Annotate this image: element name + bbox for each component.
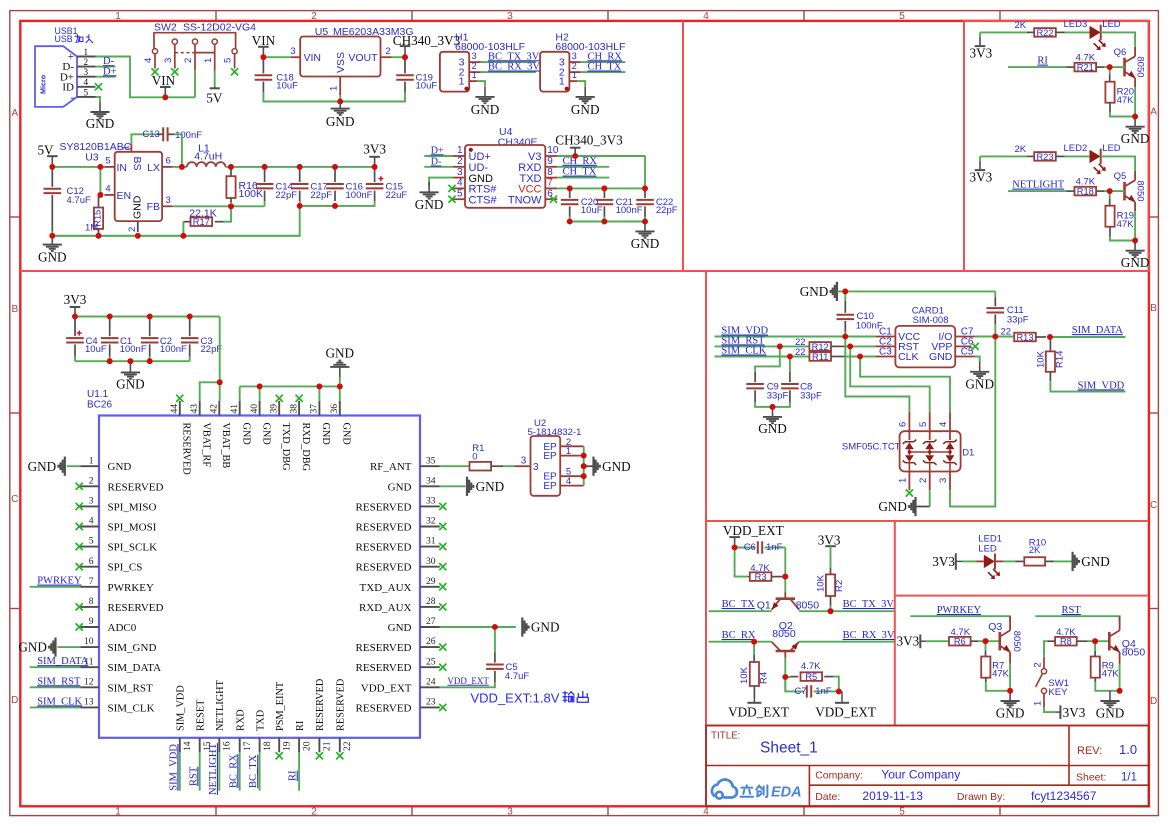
svg-text:VSS: VSS: [335, 52, 347, 73]
svg-text:C5: C5: [961, 346, 974, 357]
svg-text:C13: C13: [142, 129, 159, 140]
U1 pin 25 RESERVED: [420, 666, 440, 668]
capacitor C6: [735, 547, 756, 549]
resistor R8: [1055, 637, 1077, 646]
svg-text:1: 1: [472, 70, 477, 80]
wire SW2 pin1 to 5V: [214, 71, 216, 87]
capacitor C15 polarized: [374, 168, 376, 182]
svg-text:EDA: EDA: [771, 785, 802, 801]
svg-text:Company:: Company:: [815, 769, 863, 781]
svg-text:5V: 5V: [37, 143, 54, 158]
no-connect D1 pin1: [906, 489, 913, 496]
switch SW2 frame: [154, 33, 236, 49]
title block outline: [706, 726, 1149, 807]
svg-text:NETLIGHT: NETLIGHT: [215, 679, 226, 731]
wire FB row: [172, 205, 264, 207]
U1 pin 1 GND: [80, 465, 99, 467]
svg-text:BC_TX: BC_TX: [722, 599, 756, 610]
svg-text:CLK: CLK: [898, 351, 918, 363]
H2 pin 1: [569, 80, 577, 82]
svg-text:4: 4: [89, 516, 94, 527]
svg-text:8050: 8050: [1135, 56, 1146, 77]
svg-text:BC_RX_3V: BC_RX_3V: [843, 630, 895, 641]
svg-text:1: 1: [115, 11, 121, 22]
svg-text:D-: D-: [431, 157, 442, 168]
CARD1 pin C5 GND: [955, 356, 974, 358]
wire SW1 pin1 to 3V3: [1044, 707, 1056, 712]
junction C14 top: [262, 164, 268, 170]
svg-text:LED: LED: [1102, 19, 1121, 30]
svg-text:U3: U3: [85, 152, 99, 164]
svg-text:33: 33: [426, 496, 436, 507]
resistor R10: [1016, 560, 1025, 562]
capacitor C1: [109, 318, 111, 336]
wire R12 to CARD1 RST: [831, 345, 845, 347]
svg-text:24: 24: [426, 676, 436, 687]
junction emitter ground: [1132, 238, 1138, 244]
svg-text:3V3: 3V3: [970, 170, 993, 185]
capacitor C4 polarized: [74, 318, 76, 336]
ground below Q4: [1109, 691, 1111, 701]
svg-text:GND: GND: [571, 102, 600, 117]
junction caps rail C17: [297, 203, 303, 209]
wire H2 pin3 CH_RX: [581, 61, 626, 63]
ground flag at U2: [584, 465, 593, 467]
region divider above title block: [706, 725, 1149, 727]
no-connect U1 pin21: [316, 752, 323, 759]
svg-text:CH_RX: CH_RX: [563, 156, 598, 167]
junction VCC C22: [642, 186, 648, 192]
svg-text:4.7K: 4.7K: [801, 661, 821, 672]
wire D- to U4 pin2: [424, 166, 453, 168]
svg-text:3: 3: [84, 67, 89, 77]
svg-text:3V3: 3V3: [932, 554, 955, 569]
junction gnd rail pin37: [317, 384, 323, 390]
svg-text:R2: R2: [834, 580, 845, 592]
svg-text:NETLIGHT: NETLIGHT: [1012, 180, 1064, 191]
svg-text:25: 25: [426, 656, 436, 667]
switch SW2 pin 1 lead: [214, 44, 216, 70]
svg-text:4: 4: [703, 11, 709, 22]
power flag VIN at SW2: [164, 88, 166, 98]
svg-text:12: 12: [84, 676, 94, 687]
switch SW2 pin circles: [152, 49, 157, 54]
svg-text:5V: 5V: [206, 91, 223, 106]
wire U2 EP common: [583, 446, 585, 485]
junction dots overlay: [49, 54, 1138, 694]
wire 3V3 decoupling rail: [75, 316, 220, 318]
ground below CARD1: [979, 362, 981, 372]
svg-text:5: 5: [84, 87, 89, 97]
wire SIM_CLK to D1 pin4: [860, 357, 950, 413]
wire U1 pin20 RI: [298, 752, 300, 790]
svg-text:41: 41: [229, 404, 240, 414]
svg-text:4: 4: [703, 807, 709, 818]
wire C18 to ground rail: [263, 92, 340, 102]
resistor R7: [985, 641, 987, 651]
svg-text:Sheet_1: Sheet_1: [760, 740, 818, 757]
svg-text:37: 37: [309, 404, 320, 414]
svg-text:GND: GND: [415, 197, 444, 212]
svg-text:SIM_DATA: SIM_DATA: [1072, 325, 1123, 336]
junction C7 R5 VDD_EXT: [836, 689, 842, 695]
svg-text:GND: GND: [116, 377, 145, 392]
junction caps bottom C22: [642, 219, 648, 225]
svg-text:BS: BS: [131, 157, 143, 171]
wire H2 pin1 to ground: [577, 81, 585, 86]
ground below USB1: [99, 102, 101, 112]
wire BC_RX: [709, 641, 772, 643]
svg-text:3: 3: [472, 51, 477, 61]
svg-text:22.1K: 22.1K: [189, 207, 216, 219]
wire V3 to VCC rail: [644, 156, 646, 188]
svg-text:1nF: 1nF: [815, 686, 832, 697]
resistor R19: [1109, 191, 1111, 198]
svg-text:GND: GND: [476, 479, 505, 494]
wire R23 to LED2: [1065, 155, 1090, 157]
wire SIM_CLK row left: [715, 356, 810, 358]
svg-text:PSM_EINT: PSM_EINT: [275, 681, 286, 731]
wire U1 pin16 NETLIGHT: [218, 752, 220, 790]
svg-text:43: 43: [189, 404, 200, 414]
svg-text:GND: GND: [1121, 255, 1150, 270]
U4 pin 5 CTS#: [453, 198, 465, 200]
junction Q3 base node: [983, 638, 989, 644]
svg-text:1: 1: [572, 70, 577, 80]
svg-text:8: 8: [547, 167, 553, 178]
svg-text:D+: D+: [103, 66, 117, 77]
wire Q2 base down: [784, 651, 786, 658]
svg-text:SIM_RST: SIM_RST: [108, 682, 154, 694]
no-connect SW2 pin3: [171, 68, 178, 75]
ground flag at LED1: [1071, 552, 1073, 571]
junction I/O at C11: [992, 334, 998, 340]
svg-text:FB: FB: [147, 201, 160, 213]
wire H1 pin3 BC_TX_3V: [481, 61, 536, 63]
power flag VIN at U5: [262, 47, 264, 57]
junction caps bottom gnd: [127, 358, 133, 364]
svg-text:1: 1: [115, 807, 121, 818]
svg-text:9: 9: [89, 616, 94, 627]
RF connector U2 body: [531, 436, 561, 496]
svg-text:EP: EP: [543, 481, 557, 492]
svg-text:1: 1: [566, 446, 571, 457]
transistor Q1: [776, 597, 795, 600]
svg-text:8050: 8050: [1135, 180, 1146, 201]
wire C13 loop from BS: [131, 134, 157, 144]
svg-text:VDD_EXT: VDD_EXT: [815, 705, 876, 720]
title block row line 2: [809, 784, 1148, 786]
wire emitter down: [1134, 202, 1136, 211]
resistor R3: [748, 576, 750, 578]
svg-text:R21: R21: [1077, 63, 1094, 73]
svg-text:22: 22: [342, 741, 353, 751]
LED LED2: [1090, 150, 1101, 163]
region divider x=894.8: [894, 521, 896, 726]
U1 pin 43 VBAT_RF: [199, 401, 201, 416]
capacitor C12: [51, 168, 53, 187]
U1 pin 7 PWRKEY: [80, 586, 99, 588]
svg-text:Your Company: Your Company: [881, 767, 960, 781]
U3 pin4 EN: [104, 194, 114, 196]
junction EP gnd: [581, 463, 587, 469]
svg-text:GND: GND: [758, 421, 787, 436]
wire LX to L1: [172, 166, 187, 168]
power flag 5V at U3: [51, 157, 53, 167]
wire LED1 to R10: [995, 560, 1003, 562]
svg-text:CTS#: CTS#: [469, 194, 498, 206]
ground below U5: [339, 98, 341, 108]
wire VBAT_RF branch: [200, 382, 220, 401]
svg-text:GND: GND: [1121, 131, 1150, 146]
TVS diode D1 body: [900, 431, 961, 471]
svg-text:10uF: 10uF: [85, 344, 107, 355]
svg-text:CH_TX: CH_TX: [588, 62, 622, 73]
svg-text:SIM_CLK: SIM_CLK: [37, 696, 82, 707]
svg-text:BC_RX: BC_RX: [228, 754, 239, 788]
U1 pin 12 SIM_RST: [80, 686, 99, 688]
svg-text:34: 34: [426, 475, 436, 486]
svg-text:4.7uF: 4.7uF: [505, 671, 529, 682]
svg-text:RESERVED: RESERVED: [356, 562, 412, 574]
svg-text:8: 8: [89, 596, 94, 607]
wire 3V3 to R23: [980, 155, 1027, 157]
power flag 3V3 at R2: [830, 546, 832, 549]
U1 pin 23 RESERVED: [420, 706, 440, 708]
svg-text:Drawn By:: Drawn By:: [957, 791, 1005, 803]
U1 pin 14 SIM_VDD: [179, 738, 181, 753]
capacitor C21: [603, 190, 605, 198]
wire SIM_VDD to D1 pin6: [845, 337, 909, 413]
svg-text:1: 1: [329, 86, 340, 91]
svg-text:2: 2: [457, 156, 463, 167]
no-connect U1 pin19: [276, 752, 283, 759]
net label D- wire: [96, 66, 116, 68]
svg-text:GND: GND: [996, 705, 1025, 720]
svg-text:IN: IN: [117, 162, 128, 174]
junction EN branch: [98, 164, 104, 170]
svg-text:RF_ANT: RF_ANT: [370, 461, 412, 473]
svg-text:6: 6: [89, 556, 94, 567]
U4 pin1 marker dot: [469, 148, 473, 152]
svg-text:4.7uF: 4.7uF: [67, 195, 91, 206]
svg-text:R8: R8: [1060, 637, 1072, 647]
svg-text:R11: R11: [812, 352, 828, 362]
svg-text:5: 5: [899, 807, 905, 818]
svg-text:R14: R14: [1055, 351, 1066, 368]
capacitor C10: [844, 291, 846, 301]
resistor R17: [224, 206, 231, 221]
svg-text:Q3: Q3: [988, 621, 1002, 633]
svg-text:CH340E: CH340E: [498, 136, 538, 148]
svg-text:2: 2: [84, 57, 89, 67]
svg-text:C: C: [1150, 500, 1157, 511]
svg-text:VDD_EXT:1.8V: VDD_EXT:1.8V: [471, 690, 560, 705]
svg-text:22pF: 22pF: [310, 190, 332, 201]
svg-text:C3: C3: [879, 346, 892, 357]
U1 pin 42 VBAT_BB: [218, 401, 220, 416]
svg-text:U5: U5: [315, 26, 329, 38]
svg-text:SIM_RST: SIM_RST: [37, 676, 81, 687]
D1 internal TVS pairs: [905, 442, 914, 449]
junction caps bottom C21: [602, 219, 608, 225]
net PWRKEY wire at U1: [30, 586, 80, 588]
transistor Q3: [1009, 616, 1011, 630]
capacitor C9: [755, 346, 780, 372]
svg-text:GND: GND: [631, 236, 660, 251]
junction ground rail R15: [96, 233, 102, 239]
svg-text:21: 21: [322, 741, 333, 751]
capacitor C16: [334, 168, 336, 182]
LED LED3: [1090, 26, 1101, 39]
junction caps bottom C2: [147, 358, 153, 364]
svg-text:LED2: LED2: [1064, 143, 1088, 154]
ground below H1: [484, 87, 486, 97]
connector H2 body: [540, 52, 569, 92]
junction RST to D1: [847, 344, 853, 350]
wire C9 C8 to ground: [755, 402, 790, 407]
svg-text:9: 9: [547, 156, 553, 167]
junction CLK to D1: [857, 354, 863, 360]
no-connect U4 TNOW: [550, 196, 557, 203]
svg-text:2: 2: [918, 478, 929, 483]
wire R21 to base: [1104, 66, 1125, 68]
power flag 3V3 at U3 output: [374, 157, 376, 167]
svg-text:PWRKEY: PWRKEY: [108, 582, 155, 594]
wire C19 to ground rail: [340, 92, 405, 102]
U1 pin 3 SPI_MISO: [80, 505, 99, 507]
svg-text:10uF: 10uF: [581, 205, 603, 216]
svg-text:GND: GND: [18, 640, 47, 655]
svg-text:3V3: 3V3: [1063, 705, 1086, 720]
svg-text:BC26: BC26: [87, 400, 112, 411]
svg-text:3V3: 3V3: [64, 292, 87, 307]
U1 pin 44 RESERVED: [179, 401, 181, 416]
svg-text:A: A: [11, 108, 18, 119]
wire U4 RXD CH_RX: [557, 166, 609, 168]
svg-text:RESERVED: RESERVED: [356, 642, 412, 654]
svg-text:35: 35: [426, 455, 436, 466]
svg-text:5: 5: [918, 422, 929, 427]
svg-text:33pF: 33pF: [1007, 314, 1029, 325]
U1 pin 21 RESERVED: [318, 738, 320, 753]
U1 pin 13 SIM_CLK: [80, 706, 99, 708]
wire 3V3 to R6: [926, 640, 949, 642]
switch SW1 pin2 lead: [1047, 640, 1055, 642]
frame row ticks: [10, 216, 20, 218]
wire C11 vertical: [994, 291, 996, 297]
svg-text:SW2: SW2: [154, 22, 177, 34]
svg-text:8050: 8050: [1122, 647, 1146, 659]
wire R6 to Q3 base: [978, 640, 1000, 642]
no-connect pin29: [439, 583, 446, 590]
no-connect U1 pin44: [176, 395, 183, 402]
svg-text:SIM_DATA: SIM_DATA: [108, 662, 162, 674]
svg-text:22pF: 22pF: [275, 190, 297, 201]
svg-text:R5: R5: [805, 672, 817, 682]
wire NETLIGHT input: [1008, 190, 1067, 192]
svg-text:22: 22: [1001, 326, 1012, 337]
wire R7 to emitter rail: [986, 682, 1010, 691]
svg-text:VBAT_BB: VBAT_BB: [220, 423, 231, 469]
power flag VDD_EXT below R4: [747, 702, 761, 704]
svg-text:2: 2: [311, 11, 317, 22]
wire R22 to LED3: [1065, 31, 1090, 33]
wire output caps bottom rail: [264, 205, 266, 207]
svg-text:CH340_3V3: CH340_3V3: [555, 132, 623, 147]
U3 pin6 LX: [162, 166, 172, 168]
transistor Q4: [1119, 616, 1121, 630]
svg-text:Q6: Q6: [1114, 47, 1127, 58]
power flag VDD_EXT at C6: [734, 538, 736, 548]
svg-text:VDD_EXT: VDD_EXT: [361, 682, 412, 694]
svg-text:36: 36: [329, 404, 340, 414]
svg-text:R4: R4: [759, 672, 770, 684]
USB1 pins: [77, 56, 96, 58]
svg-text:3: 3: [572, 51, 577, 61]
svg-text:13: 13: [84, 697, 94, 708]
U2 EP pin 2: [560, 445, 584, 447]
svg-text:A: A: [1150, 107, 1157, 118]
svg-text:3: 3: [938, 478, 949, 483]
svg-text:GND: GND: [1081, 554, 1110, 569]
svg-text:2019-11-13: 2019-11-13: [862, 789, 923, 803]
switch SW2 pin 4 lead: [154, 54, 156, 69]
wire R17 to ground rail: [182, 222, 184, 236]
wire U4 TXD CH_TX: [557, 177, 609, 179]
junction emitter ground: [1132, 114, 1138, 120]
svg-text:1: 1: [1033, 701, 1044, 706]
wire U4 GND pin to ground: [429, 178, 453, 187]
svg-text:100K: 100K: [239, 188, 264, 200]
junction gnd rail pin36: [337, 384, 343, 390]
junction 3V3 rail C4: [72, 314, 78, 320]
power flag 3V3 at LED1: [955, 553, 957, 570]
junction EN pin: [98, 192, 104, 198]
U1 pin 38 RXD_DBG: [298, 401, 300, 416]
wire R8 to Q4 base: [1088, 640, 1110, 642]
svg-text:4.7K: 4.7K: [1056, 627, 1076, 638]
wire BC_TX: [709, 610, 772, 612]
D1 pin 4: [949, 413, 951, 441]
junction FB node: [228, 203, 234, 209]
transistor Q5: [1134, 171, 1136, 181]
svg-text:VIN: VIN: [252, 33, 276, 48]
svg-text:3V3: 3V3: [896, 634, 919, 649]
resistor R9: [1094, 641, 1096, 651]
CARD1 pin C1 VCC: [875, 336, 895, 338]
wire C13 to LX node: [174, 134, 182, 167]
junction VIN at C18: [261, 54, 267, 60]
wire R10 to ground flag: [1054, 560, 1072, 562]
svg-text:2: 2: [89, 475, 94, 486]
junction base Q6: [1107, 64, 1113, 70]
svg-text:TXD: TXD: [255, 709, 266, 731]
svg-text:SIM-008: SIM-008: [913, 315, 949, 326]
svg-text:1: 1: [459, 76, 465, 88]
power flag 3V3 at R6: [919, 635, 921, 649]
junction VIN: [162, 94, 168, 100]
title block logo cloud: [712, 779, 737, 798]
svg-text:3V3: 3V3: [363, 141, 386, 156]
svg-text:22: 22: [795, 347, 806, 358]
svg-text:LX: LX: [147, 162, 160, 174]
U1 pin 27 GND: [420, 626, 440, 628]
svg-text:CH340_3V3: CH340_3V3: [393, 33, 461, 48]
svg-text:RST: RST: [1062, 605, 1082, 616]
region divider LED1 bottom: [895, 595, 1149, 597]
U1 pin 15 RESET: [199, 738, 201, 753]
